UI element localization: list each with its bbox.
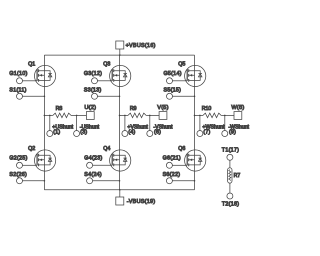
svg-text:S5(15): S5(15) xyxy=(164,88,182,94)
junction Q4 source xyxy=(119,180,121,182)
resistor R8 xyxy=(53,113,71,118)
Q2 gate bar xyxy=(36,154,38,166)
wire G4(23) to Q4 gate xyxy=(93,164,113,166)
wire W phase trunk xyxy=(194,55,196,190)
terminal +WShunt xyxy=(197,131,203,137)
svg-text:T1(17): T1(17) xyxy=(222,147,239,153)
svg-text:(9): (9) xyxy=(229,130,236,136)
svg-text:U(2): U(2) xyxy=(84,105,96,111)
Q5 drain/body/source stubs xyxy=(189,71,195,81)
Q5 body-diode loop xyxy=(195,71,201,81)
Q3 body-diode triangle xyxy=(123,74,127,77)
transistor Q3 body circle xyxy=(110,65,131,86)
wire R7 to T2 xyxy=(229,183,231,193)
Q5 body-diode cathode bar xyxy=(198,73,202,75)
Q1 N-channel arrow xyxy=(40,74,43,77)
svg-text:G2(25): G2(25) xyxy=(9,155,27,161)
terminal -WShunt xyxy=(222,131,228,137)
Q3 channel segments xyxy=(113,69,115,82)
terminal T1(17) xyxy=(227,154,233,160)
junction -VShunt tap xyxy=(149,115,151,117)
wire T1 to R7 xyxy=(229,160,231,168)
wire R10 to W(8) terminal xyxy=(221,114,234,116)
terminal +VBUS(16) xyxy=(116,41,124,49)
svg-text:-VBUS(19): -VBUS(19) xyxy=(127,199,156,205)
Q5 channel segments xyxy=(188,69,190,82)
Q6 body-diode triangle xyxy=(198,158,202,161)
wire rail to -VBUS terminal xyxy=(119,190,121,197)
svg-text:R8: R8 xyxy=(56,106,63,112)
Q4 body-diode cathode bar xyxy=(123,157,127,159)
wire +VBUS terminal to rail xyxy=(119,49,121,55)
terminal S1(11) xyxy=(17,93,23,99)
svg-text:R7: R7 xyxy=(234,173,241,179)
terminal +VShunt xyxy=(122,131,128,137)
svg-text:+VBUS(16): +VBUS(16) xyxy=(126,43,156,49)
transistor Q6 body circle xyxy=(185,150,206,171)
terminal +UShunt xyxy=(47,131,53,137)
Q4 drain/body/source stubs xyxy=(114,155,120,165)
terminal G5(14) xyxy=(167,78,173,84)
Q2 channel segments xyxy=(38,154,40,167)
svg-text:G6(21): G6(21) xyxy=(163,155,181,161)
wire to -VShunt xyxy=(149,115,151,130)
svg-text:(3): (3) xyxy=(80,130,87,136)
resistor R7 zigzag xyxy=(229,170,231,181)
Q5 body-diode triangle xyxy=(198,74,202,77)
Q2 body-diode loop xyxy=(44,155,50,165)
Q3 body-diode loop xyxy=(120,71,126,81)
transistor Q5 body circle xyxy=(185,65,206,86)
terminal G2(25) xyxy=(17,162,23,168)
wire S5(15) to Q5 source xyxy=(173,95,195,97)
wire S4(24) to Q4 source xyxy=(93,180,120,182)
Q6 body-diode cathode bar xyxy=(198,157,202,159)
svg-text:S2(26): S2(26) xyxy=(9,172,27,178)
Q2 drain/body/source stubs xyxy=(39,155,45,165)
svg-text:S3(13): S3(13) xyxy=(84,88,102,94)
junction phase node x=194.5 xyxy=(194,115,196,117)
wire -VBUS bottom rail xyxy=(44,189,194,191)
svg-text:Q6: Q6 xyxy=(178,146,185,152)
wire +VBUS top rail xyxy=(44,54,194,56)
svg-text:(6): (6) xyxy=(154,130,161,136)
terminal W(8) square xyxy=(234,112,242,120)
Q3 body-diode cathode bar xyxy=(123,73,127,75)
terminal G3(12) xyxy=(92,78,98,84)
wire V phase trunk xyxy=(119,55,121,190)
terminal -VBUS(19) xyxy=(116,197,124,205)
svg-text:R9: R9 xyxy=(130,106,137,112)
terminal U(2) square xyxy=(86,112,94,120)
resistor R10 xyxy=(203,113,221,118)
Q2 body-diode triangle xyxy=(48,158,52,161)
terminal V(5) square xyxy=(159,112,167,120)
svg-text:(7): (7) xyxy=(203,130,210,136)
wire G5(14) to Q5 gate xyxy=(173,80,188,82)
wire R9 to V(5) terminal xyxy=(146,114,159,116)
wire to +VShunt xyxy=(124,115,126,130)
junction +VBUS tap xyxy=(119,54,121,56)
Q1 body-diode loop xyxy=(44,71,50,81)
Q5 gate bar xyxy=(186,69,188,81)
wire to -UShunt xyxy=(76,115,78,130)
junction Q5 source xyxy=(194,96,196,98)
transistor Q4 body circle xyxy=(110,150,131,171)
junction phase node x=44.4 xyxy=(44,115,46,117)
junction -WShunt tap xyxy=(224,115,226,117)
wire S6(22) to Q6 source xyxy=(172,180,194,182)
junction Q6 source xyxy=(194,180,196,182)
Q1 body-diode cathode bar xyxy=(48,73,52,75)
svg-text:Q3: Q3 xyxy=(103,62,110,68)
terminal S2(26) xyxy=(17,178,23,184)
junction -UShunt tap xyxy=(76,115,78,117)
transistor Q1 body circle xyxy=(35,65,56,86)
wire S2(26) to Q2 source xyxy=(23,180,45,182)
resistor R9 xyxy=(128,113,146,118)
Q2 N-channel arrow xyxy=(40,159,43,162)
Q4 gate bar xyxy=(111,154,113,166)
junction +VShunt tap xyxy=(124,115,126,117)
svg-text:G4(23): G4(23) xyxy=(84,155,102,161)
terminal G6(21) xyxy=(166,162,172,168)
wire to -WShunt xyxy=(224,115,226,130)
svg-text:R10: R10 xyxy=(202,106,212,112)
Q6 body-diode loop xyxy=(195,155,201,165)
terminal S4(24) xyxy=(87,178,93,184)
wire R8 to U(2) terminal xyxy=(71,114,86,116)
svg-text:S1(11): S1(11) xyxy=(9,88,26,94)
svg-text:Q5: Q5 xyxy=(178,62,185,68)
wire phase node to R10 xyxy=(195,114,204,116)
wire U phase trunk xyxy=(43,55,45,190)
svg-text:S6(22): S6(22) xyxy=(163,172,181,178)
Q5 N-channel arrow xyxy=(190,74,193,77)
junction Q1 source xyxy=(44,96,46,98)
Q1 channel segments xyxy=(38,69,40,82)
terminal G4(23) xyxy=(87,162,93,168)
Q4 body-diode loop xyxy=(120,155,126,165)
Q1 drain/body/source stubs xyxy=(39,71,45,81)
wire to +WShunt xyxy=(199,115,201,130)
svg-text:W(8): W(8) xyxy=(231,105,244,111)
Q6 gate bar xyxy=(186,154,188,166)
wire phase node to R9 xyxy=(120,114,129,116)
wire G1(10) to Q1 gate xyxy=(23,80,38,82)
Q1 body-diode triangle xyxy=(48,74,52,77)
terminal -VShunt xyxy=(147,131,153,137)
Q4 N-channel arrow xyxy=(115,159,118,162)
junction +WShunt tap xyxy=(199,115,201,117)
Q6 N-channel arrow xyxy=(190,159,193,162)
svg-text:G1(10): G1(10) xyxy=(9,71,27,77)
svg-text:G3(12): G3(12) xyxy=(84,71,102,77)
wire G3(12) to Q3 gate xyxy=(98,80,113,82)
svg-text:S4(24): S4(24) xyxy=(84,172,102,178)
Q3 N-channel arrow xyxy=(115,74,118,77)
Q2 body-diode cathode bar xyxy=(48,157,52,159)
junction Q2 source xyxy=(44,180,46,182)
wire phase node to R8 xyxy=(44,114,53,116)
svg-text:G5(14): G5(14) xyxy=(164,71,182,77)
svg-text:Q1: Q1 xyxy=(28,62,35,68)
thermistor R7 body xyxy=(228,168,232,183)
terminal S6(22) xyxy=(166,178,172,184)
Q4 body-diode triangle xyxy=(123,158,127,161)
svg-text:Q4: Q4 xyxy=(103,146,110,152)
svg-text:T2(18): T2(18) xyxy=(222,202,239,208)
Q1 gate bar xyxy=(36,69,38,81)
junction phase node x=119.5 xyxy=(119,115,121,117)
junction -VBUS tap xyxy=(119,189,121,191)
junction +UShunt tap xyxy=(49,115,51,117)
svg-text:(4): (4) xyxy=(128,130,135,136)
terminal -UShunt xyxy=(74,131,80,137)
Q6 channel segments xyxy=(188,154,190,167)
svg-text:(1): (1) xyxy=(53,130,60,136)
Q6 drain/body/source stubs xyxy=(189,155,195,165)
Q4 channel segments xyxy=(113,154,115,167)
wire to +UShunt xyxy=(49,115,51,130)
terminal T2(18) xyxy=(227,193,233,199)
terminal G1(10) xyxy=(17,78,23,84)
svg-text:Q2: Q2 xyxy=(28,146,35,152)
wire G6(21) to Q6 gate xyxy=(172,164,187,166)
Q3 drain/body/source stubs xyxy=(114,71,120,81)
terminal S5(15) xyxy=(167,93,173,99)
transistor Q2 body circle xyxy=(35,150,56,171)
svg-text:V(5): V(5) xyxy=(157,105,169,111)
Q3 gate bar xyxy=(111,69,113,81)
junction Q3 source xyxy=(119,96,121,98)
wire G2(25) to Q2 gate xyxy=(23,164,38,166)
terminal S3(13) xyxy=(92,93,98,99)
wire S3(13) to Q3 source xyxy=(98,95,120,97)
wire S1(11) to Q1 source xyxy=(23,95,45,97)
